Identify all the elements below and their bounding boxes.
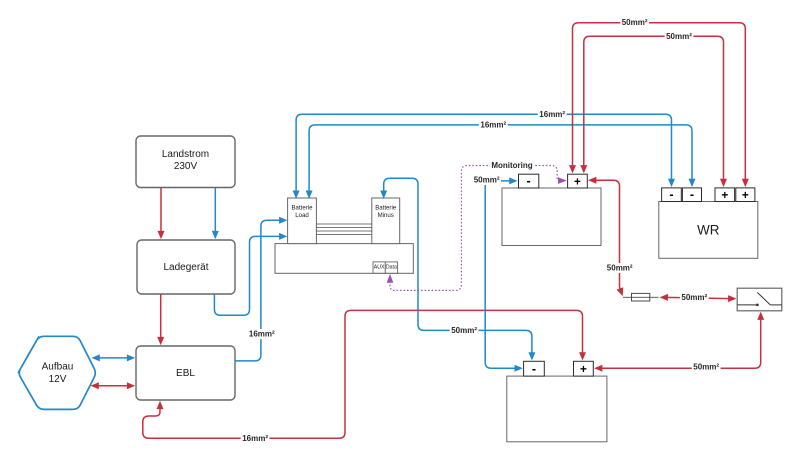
WR plus terminal 2: [736, 188, 755, 202]
inverter WR body: [659, 202, 758, 259]
shunt resistance bars: [316, 224, 371, 235]
shunt AUX / Data ports: [373, 262, 398, 273]
wire Landstrom to Ladegeraet (blue): [212, 188, 219, 239]
svg-text:16mm²: 16mm²: [539, 110, 565, 119]
svg-text:+: +: [580, 362, 587, 376]
svg-text:50mm²: 50mm²: [607, 264, 633, 273]
wire fuse to switch (red): [660, 294, 737, 302]
svg-text:-: -: [527, 174, 531, 188]
wire shunt Batterie Load to WR minus 1 (blue): [293, 114, 675, 199]
WR minus terminal 1: [662, 188, 682, 202]
svg-text:16mm²: 16mm²: [249, 330, 275, 339]
svg-text:AUX: AUX: [374, 265, 385, 271]
fuse F1: [623, 293, 659, 301]
svg-text:50mm²: 50mm²: [622, 18, 648, 27]
svg-text:Ladegerät: Ladegerät: [163, 262, 208, 273]
svg-text:-: -: [532, 362, 536, 376]
label 50mm2 inner loop: [665, 31, 694, 41]
label 50mm2 B1 minus: [472, 175, 501, 185]
svg-text:50mm²: 50mm²: [451, 326, 477, 335]
svg-text:50mm²: 50mm²: [474, 176, 500, 185]
svg-text:WR: WR: [697, 223, 720, 238]
svg-text:16mm²: 16mm²: [480, 120, 506, 129]
wire shunt Batterie Minus to battery B2 minus (blue): [380, 178, 535, 360]
block Ladegeraet: [137, 240, 235, 294]
hexagon node Aufbau 12V: [18, 336, 95, 409]
label 16mm2 EBL to B2 plus: [241, 433, 270, 443]
label Monitoring: [490, 160, 534, 170]
svg-text:16mm²: 16mm²: [242, 434, 268, 443]
battery B2 minus terminal: [524, 361, 545, 376]
label 50mm2 B1 plus to fuse: [605, 263, 634, 273]
battery B1 plus terminal: [568, 174, 588, 188]
svg-text:Batterie: Batterie: [375, 205, 397, 212]
label 16mm2 WR minus 2: [479, 120, 508, 130]
svg-text:Monitoring: Monitoring: [491, 161, 532, 170]
wire Ladegeraet to shunt Batterie Load (blue): [214, 233, 287, 315]
monitoring data link shunt to battery B1 plus (purple): [387, 166, 567, 291]
svg-text:Landstrom: Landstrom: [162, 149, 209, 160]
svg-text:50mm²: 50mm²: [693, 363, 719, 372]
svg-text:+: +: [742, 188, 749, 202]
svg-text:12V: 12V: [49, 374, 67, 385]
wire shunt Batterie Load to WR minus 2 (blue): [306, 125, 696, 199]
svg-text:Data: Data: [386, 265, 397, 271]
shunt pillar Batterie Minus: [372, 198, 400, 244]
svg-text:-: -: [690, 188, 694, 202]
battery B2 body: [507, 376, 607, 442]
WR minus terminal 2: [682, 188, 701, 202]
battery B1 minus terminal: [519, 174, 539, 188]
wire EBL to shunt Batterie Load (blue): [235, 217, 287, 361]
svg-text:+: +: [574, 174, 581, 188]
label 50mm2 shunt to B2 minus: [450, 325, 479, 335]
battery B2 plus terminal: [574, 361, 594, 376]
battery B1 body: [502, 188, 601, 246]
wire battery B1 plus to WR plus 2 outer loop (red): [569, 23, 749, 187]
svg-text:Aufbau: Aufbau: [42, 362, 74, 373]
wire battery B2 plus to switch (red): [594, 312, 764, 372]
WR plus terminal 1: [715, 188, 735, 202]
label 50mm2 B2 plus to switch: [692, 362, 721, 372]
shunt pillar Batterie Load: [288, 198, 317, 244]
wire battery B1 plus to fuse (red): [588, 177, 623, 296]
wire battery B1 plus to WR plus 1 inner loop (red): [580, 36, 727, 187]
svg-text:Batterie: Batterie: [291, 205, 313, 212]
label 50mm2 outer loop: [620, 18, 649, 28]
label 16mm2 WR minus 1: [538, 109, 567, 119]
svg-text:-: -: [669, 188, 673, 202]
wire Ladegeraet to EBL (red): [157, 294, 164, 345]
battery main switch S1: [737, 288, 782, 311]
wire Aufbau-EBL 12V supply (blue): [92, 354, 136, 361]
svg-text:230V: 230V: [174, 161, 198, 172]
svg-text:Load: Load: [295, 212, 309, 219]
label 16mm2 EBL to shunt: [247, 329, 276, 339]
svg-text:50mm²: 50mm²: [666, 32, 692, 41]
wire EBL to battery B2 plus (red): [143, 310, 586, 438]
wire battery B1 minus to battery B2 minus (blue): [485, 177, 523, 371]
label 50mm2 fuse to switch: [680, 292, 709, 302]
shunt base: [275, 244, 413, 274]
block EBL: [136, 346, 235, 400]
svg-text:EBL: EBL: [176, 368, 195, 379]
svg-text:Minus: Minus: [378, 212, 394, 219]
svg-text:+: +: [721, 188, 728, 202]
svg-text:50mm²: 50mm²: [681, 293, 707, 302]
wire Landstrom to Ladegeraet (red): [158, 188, 165, 239]
block Landstrom 230V: [136, 136, 235, 188]
wire Aufbau-EBL 12V supply (red): [91, 382, 136, 389]
